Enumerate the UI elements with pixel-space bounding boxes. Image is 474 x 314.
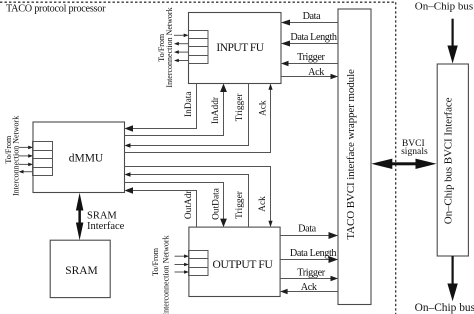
- wire Trigger (wrapper to INPUT FU): [281, 61, 338, 67]
- wire Trigger (INPUT FU to dMMU): [125, 84, 249, 148]
- svg-text:On–Chip bus BVCI Interface: On–Chip bus BVCI Interface: [443, 97, 455, 224]
- svg-text:Ack: Ack: [258, 100, 268, 116]
- block TACO BVCI interface wrapper module: [338, 9, 371, 305]
- wire Trigger (OUTPUT FU to dMMU): [125, 172, 249, 227]
- On-Chip bus bottom arrow: [447, 256, 457, 301]
- block On-Chip bus BVCI Interface: [437, 64, 468, 256]
- svg-text:OutAdr: OutAdr: [184, 190, 194, 220]
- INPUT FU network port box: [189, 31, 209, 64]
- svg-text:Ack: Ack: [308, 67, 325, 78]
- svg-text:Trigger: Trigger: [235, 93, 245, 122]
- svg-text:To/From: To/From: [151, 247, 160, 276]
- svg-text:Trigger: Trigger: [297, 267, 325, 278]
- svg-text:Interface: Interface: [87, 221, 125, 232]
- block OUTPUT FU: [189, 227, 280, 296]
- label To/From Interconnection Network (INPUT FU): [157, 7, 174, 87]
- svg-text:On–Chip bus: On–Chip bus: [415, 0, 473, 12]
- block INPUT FU: [189, 13, 282, 84]
- svg-text:Trigger: Trigger: [297, 52, 325, 63]
- block SRAM: [50, 240, 110, 297]
- INPUT FU port arrow in: [174, 34, 189, 38]
- OUTPUT FU network port box: [189, 251, 209, 276]
- svg-text:Data: Data: [298, 224, 317, 235]
- svg-text:InData: InData: [184, 91, 194, 117]
- On-Chip bus top arrow: [447, 19, 457, 64]
- block dMMU: [33, 122, 125, 193]
- wire Trigger (OUTPUT FU to wrapper): [280, 276, 338, 282]
- dMMU network port box: [33, 142, 53, 176]
- OUTPUT FU port arrows in: [175, 254, 189, 273]
- svg-text:Data: Data: [303, 11, 322, 22]
- svg-text:TACO BVCI interface wrapper mo: TACO BVCI interface wrapper module: [345, 69, 357, 240]
- svg-text:Data Length: Data Length: [290, 248, 337, 259]
- INPUT FU port arrows out: [174, 42, 189, 62]
- svg-text:Data Length: Data Length: [290, 32, 337, 43]
- wire Data (wrapper to INPUT FU): [281, 20, 338, 26]
- svg-text:Interconnection Network: Interconnection Network: [165, 7, 174, 87]
- wire Ack (wrapper to OUTPUT FU): [280, 289, 338, 295]
- SRAM Interface double arrow: [76, 193, 84, 240]
- svg-text:On–Chip bus: On–Chip bus: [415, 302, 474, 314]
- svg-text:InAddr: InAddr: [211, 96, 221, 124]
- svg-text:TACO protocol processor: TACO protocol processor: [6, 4, 106, 15]
- wire Ack (dMMU to INPUT FU): [125, 84, 273, 153]
- svg-text:Interconnection Network: Interconnection Network: [161, 235, 170, 314]
- svg-text:Trigger: Trigger: [235, 190, 245, 219]
- label To/From Interconnection Network (OUTPUT FU): [151, 235, 170, 314]
- svg-text:dMMU: dMMU: [69, 153, 104, 165]
- wire InData (INPUT FU to dMMU): [125, 84, 197, 132]
- wire Ack (dMMU to OUTPUT FU): [125, 167, 273, 228]
- svg-text:Interconnection Network: Interconnection Network: [12, 116, 21, 196]
- svg-text:SRAM: SRAM: [65, 265, 98, 277]
- wire OutData (dMMU to OUTPUT FU): [125, 183, 227, 228]
- BVCI signals double arrow: [371, 159, 436, 169]
- svg-text:INPUT FU: INPUT FU: [216, 42, 264, 54]
- dMMU port arrow out: [19, 170, 33, 174]
- svg-text:signals: signals: [401, 146, 428, 157]
- svg-text:OutData: OutData: [212, 187, 222, 220]
- svg-text:OUTPUT FU: OUTPUT FU: [212, 259, 273, 271]
- wire Data Length (OUTPUT FU to wrapper): [280, 256, 338, 263]
- wire InAddr (dMMU to INPUT FU): [125, 84, 227, 136]
- dMMU port arrows in: [19, 146, 33, 167]
- label To/From Interconnection Network (dMMU): [4, 116, 21, 196]
- svg-text:Ack: Ack: [258, 196, 268, 212]
- svg-text:SRAM: SRAM: [87, 211, 117, 222]
- svg-text:Ack: Ack: [301, 282, 318, 293]
- wire OutAdr (OUTPUT FU to dMMU): [125, 187, 197, 227]
- wire Data Length (wrapper to INPUT FU): [281, 41, 338, 47]
- wire Data (OUTPUT FU to wrapper): [280, 232, 338, 239]
- wire Ack (INPUT FU to wrapper): [281, 74, 338, 80]
